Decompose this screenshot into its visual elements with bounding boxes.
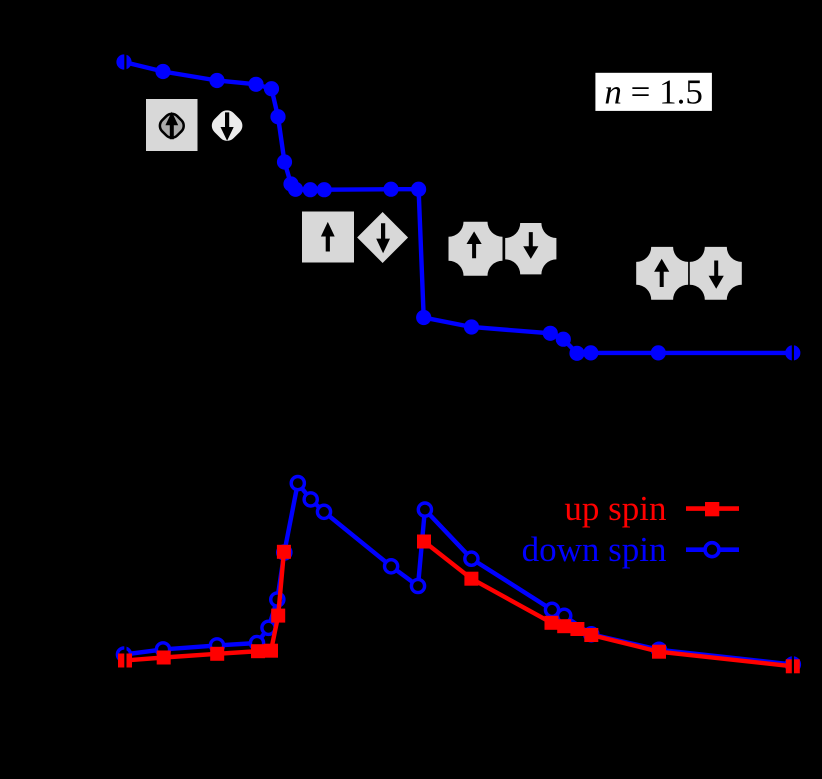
n = 1.5 annotation box <box>595 73 712 112</box>
svg-text:n = 1.5: n = 1.5 <box>604 73 703 112</box>
label pair 2: grey square with up arrow + sharp diamond with down arrow <box>302 212 408 263</box>
legend: up spin <box>564 489 739 528</box>
bottom panel: up spin red curve (two branches) <box>118 535 800 674</box>
top panel: n(up)+n(down) blue curve <box>116 54 800 361</box>
label pair 3: two notched squares (gears) with up/down arrows <box>449 222 557 276</box>
legend: down spin <box>522 530 739 569</box>
axis frame lines (black, cut through edge markers) <box>125 47 793 700</box>
bottom panel: down spin blue curve <box>117 477 799 672</box>
svg-text:up spin: up spin <box>564 489 666 528</box>
svg-text:down spin: down spin <box>522 530 667 569</box>
label pair 4: two notched squares (gears) with up/down arrows <box>636 247 742 300</box>
label pair 1: grey box with ringed up-squircle + light down-squircle <box>146 99 246 151</box>
